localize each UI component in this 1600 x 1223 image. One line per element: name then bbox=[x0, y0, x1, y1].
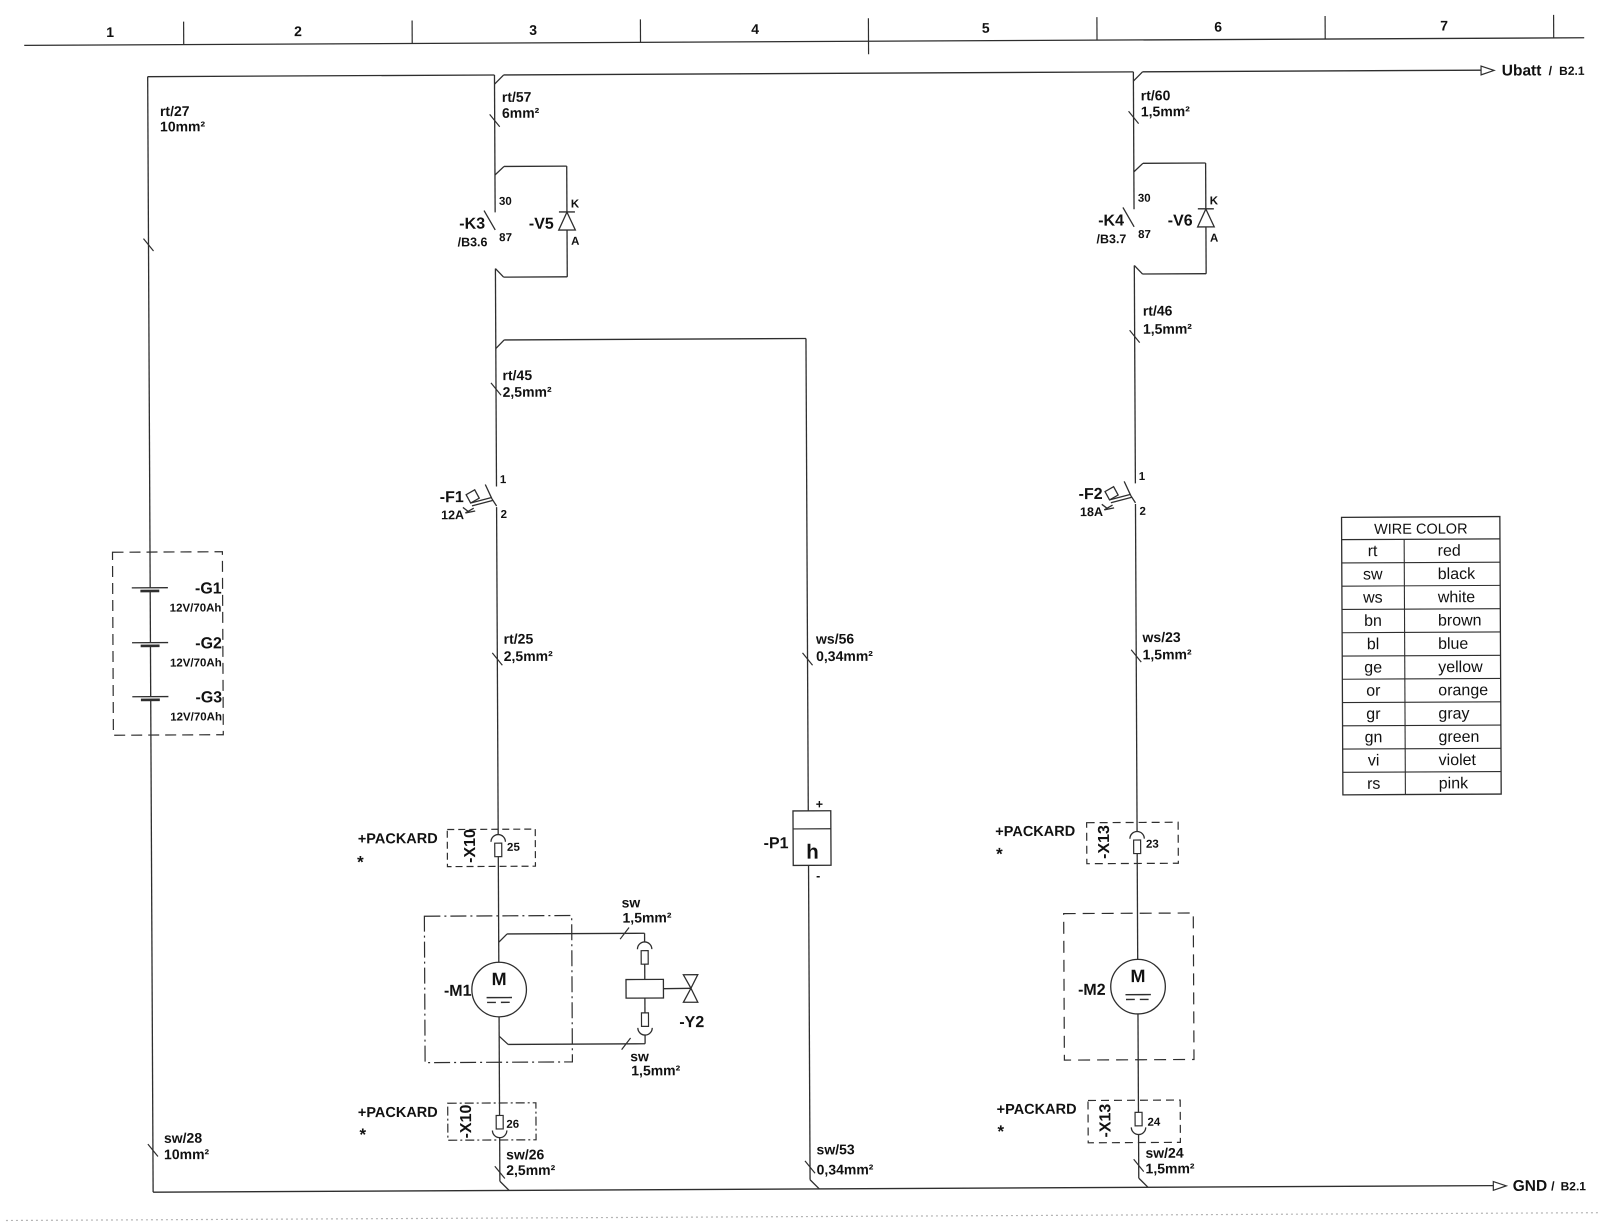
svg-text:1,5mm²: 1,5mm² bbox=[631, 1062, 680, 1078]
wire label sw 1,5mm2 (upper Y2 feed) bbox=[622, 894, 672, 925]
svg-text:orange: orange bbox=[1438, 682, 1488, 699]
wire rt/46 from K4 to F2 bbox=[1134, 265, 1135, 483]
circuit breaker -F1 contact bbox=[485, 484, 496, 506]
cathode label K of -V5 bbox=[571, 198, 580, 210]
motor M1 enclosure box bbox=[424, 916, 572, 1063]
wire sw/26 from X10:26 to GND bbox=[500, 1138, 509, 1191]
motor -M1 (DC motor) bbox=[472, 962, 527, 1017]
junction diagonal at rt/60 bbox=[1133, 72, 1142, 81]
rating 18A of -F2 bbox=[1080, 505, 1103, 519]
release arrow of -F1 bbox=[463, 507, 475, 513]
column ruler line bbox=[24, 38, 1584, 46]
marker slash sw/53 bbox=[805, 1161, 815, 1173]
motor M2 enclosure box bbox=[1064, 913, 1194, 1060]
asterisk (upper left) bbox=[357, 853, 364, 872]
svg-text:sw/53: sw/53 bbox=[816, 1141, 854, 1157]
svg-text:/B3.7: /B3.7 bbox=[1096, 232, 1126, 246]
svg-text:23: 23 bbox=[1146, 839, 1159, 851]
asterisk (lower right) bbox=[997, 1122, 1004, 1141]
svg-text:-V6: -V6 bbox=[1168, 213, 1193, 230]
marker slash rt/57 bbox=[490, 114, 500, 126]
svg-text:violet: violet bbox=[1439, 752, 1477, 769]
svg-text:1: 1 bbox=[500, 474, 507, 486]
svg-text:rt/46: rt/46 bbox=[1143, 302, 1173, 318]
svg-text:*: * bbox=[357, 853, 364, 872]
pin 2 of -F1 bbox=[501, 509, 507, 521]
marker slash rt/46 bbox=[1130, 330, 1140, 342]
connector contact pair (upper Y2) bbox=[637, 942, 652, 964]
svg-text:WIRE COLOR: WIRE COLOR bbox=[1374, 521, 1468, 537]
wire label rt/27 10mm2 bbox=[160, 103, 206, 135]
svg-text:87: 87 bbox=[499, 232, 512, 244]
pin 1 of -F1 bbox=[500, 474, 507, 486]
svg-text:pink: pink bbox=[1439, 775, 1469, 792]
svg-text:12V/70Ah: 12V/70Ah bbox=[170, 711, 222, 723]
wire label rt/45 2,5mm2 bbox=[503, 367, 553, 400]
svg-text:gray: gray bbox=[1438, 706, 1469, 723]
svg-text:+PACKARD: +PACKARD bbox=[358, 1105, 438, 1121]
ruler number 2 bbox=[294, 23, 302, 39]
connector -X13 pin 24 enclosure bbox=[1088, 1100, 1180, 1143]
marker slash ws/56 bbox=[803, 653, 813, 665]
svg-text:Ubatt: Ubatt bbox=[1502, 62, 1542, 79]
wire rt/57 from Ubatt to K3 bbox=[493, 75, 496, 212]
asterisk (lower left) bbox=[359, 1125, 366, 1144]
svg-text:2,5mm²: 2,5mm² bbox=[503, 384, 552, 400]
hour meter -P1 bbox=[793, 811, 831, 866]
location label +PACKARD (lower right) bbox=[997, 1102, 1077, 1118]
svg-text:18A: 18A bbox=[1080, 505, 1103, 519]
svg-text:1: 1 bbox=[1139, 471, 1146, 483]
ruler number 3 bbox=[529, 22, 537, 38]
label -V6 bbox=[1168, 213, 1193, 230]
valve symbol of -Y2 bbox=[683, 975, 698, 1003]
svg-text:12V/70Ah: 12V/70Ah bbox=[170, 602, 222, 614]
svg-text:vi: vi bbox=[1368, 752, 1380, 769]
svg-text:rt: rt bbox=[1368, 543, 1378, 560]
svg-text:black: black bbox=[1438, 566, 1476, 583]
svg-text:*: * bbox=[359, 1125, 366, 1144]
rating 12V/70Ah of -G1 bbox=[170, 602, 222, 614]
ruler number 1 bbox=[106, 24, 114, 40]
svg-text:+: + bbox=[816, 797, 823, 811]
svg-text:h: h bbox=[806, 841, 819, 864]
svg-text:ws: ws bbox=[1362, 590, 1383, 607]
marker slash rt/25 bbox=[492, 653, 502, 665]
svg-text:/B3.6: /B3.6 bbox=[458, 235, 488, 249]
svg-text:6mm²: 6mm² bbox=[502, 105, 540, 121]
svg-text:-X10: -X10 bbox=[458, 1104, 475, 1138]
wire label sw 1,5mm2 (lower Y2 return) bbox=[630, 1048, 681, 1078]
ruler number 4 bbox=[751, 21, 759, 37]
relay contact -K4 (terminals 30/87) bbox=[1123, 207, 1134, 227]
wire color legend table bbox=[1342, 517, 1502, 795]
Ubatt supply rail bbox=[148, 70, 1481, 77]
cathode label K of -V6 bbox=[1210, 195, 1219, 207]
svg-text:24: 24 bbox=[1147, 1117, 1160, 1129]
label -F1 bbox=[440, 489, 464, 506]
svg-text:-: - bbox=[816, 869, 820, 883]
svg-text:bl: bl bbox=[1367, 636, 1380, 653]
wire label sw/24 1,5mm2 bbox=[1145, 1145, 1195, 1177]
svg-text:white: white bbox=[1437, 589, 1476, 606]
svg-text:6: 6 bbox=[1214, 19, 1222, 35]
svg-text:1,5mm²: 1,5mm² bbox=[1141, 103, 1190, 119]
svg-text:+PACKARD: +PACKARD bbox=[997, 1102, 1077, 1118]
svg-text:B2.1: B2.1 bbox=[1559, 64, 1585, 78]
svg-text:-X13: -X13 bbox=[1097, 1104, 1114, 1138]
svg-text:rs: rs bbox=[1367, 776, 1380, 793]
svg-text:3: 3 bbox=[529, 22, 537, 38]
svg-text:2: 2 bbox=[1139, 506, 1145, 518]
ruler tick 6 bbox=[1324, 16, 1326, 39]
svg-text:yellow: yellow bbox=[1438, 659, 1483, 676]
svg-text:sw/24: sw/24 bbox=[1145, 1145, 1183, 1161]
rating 12V/70Ah of -G2 bbox=[170, 657, 222, 669]
svg-text:A: A bbox=[1210, 233, 1218, 245]
svg-text:1,5mm²: 1,5mm² bbox=[1143, 646, 1192, 662]
wire sw/28 from battery to GND bbox=[151, 700, 153, 1192]
svg-text:10mm²: 10mm² bbox=[160, 118, 206, 134]
svg-text:-M2: -M2 bbox=[1078, 982, 1106, 999]
connector contact 24 of -X13 bbox=[1131, 1112, 1146, 1134]
svg-text:sw: sw bbox=[1363, 566, 1383, 583]
label -G3 bbox=[195, 689, 222, 706]
anode label A of -V6 bbox=[1210, 233, 1218, 245]
svg-text:rt/45: rt/45 bbox=[503, 367, 533, 383]
location label +PACKARD (upper right) bbox=[995, 824, 1075, 840]
label -G2 bbox=[195, 635, 222, 652]
svg-text:12A: 12A bbox=[441, 508, 464, 522]
svg-text:1: 1 bbox=[106, 24, 114, 40]
svg-text:-X13: -X13 bbox=[1096, 825, 1113, 859]
relay contact -K3 (terminals 30/87) bbox=[484, 210, 495, 230]
ruler tick 1 bbox=[183, 22, 185, 45]
svg-text:1,5mm²: 1,5mm² bbox=[622, 909, 671, 925]
svg-text:2: 2 bbox=[501, 509, 507, 521]
ruler tick 4 bbox=[867, 18, 869, 54]
marker slash sw/28 bbox=[148, 1144, 158, 1156]
link from coil to valve symbol bbox=[663, 987, 691, 989]
svg-text:-K4: -K4 bbox=[1098, 213, 1124, 230]
svg-text:12V/70Ah: 12V/70Ah bbox=[170, 657, 222, 669]
wire label sw/53 0,34mm2 bbox=[816, 1141, 873, 1177]
wire from connector to Y2 coil bbox=[644, 964, 646, 979]
wire label ws/56 0,34mm2 bbox=[815, 630, 873, 664]
connector -X10 pin 25 enclosure bbox=[447, 829, 535, 867]
svg-text:2: 2 bbox=[294, 23, 302, 39]
pin number 26 bbox=[506, 1119, 519, 1131]
solenoid coil -Y2 bbox=[626, 979, 663, 998]
svg-text:GND: GND bbox=[1513, 1178, 1548, 1195]
battery cell -G2 12V/70Ah bbox=[132, 643, 168, 646]
release arrow of -F2 bbox=[1102, 504, 1114, 510]
label -G1 bbox=[195, 580, 222, 597]
svg-text:/: / bbox=[1549, 64, 1553, 78]
pin 87 of -K3 bbox=[499, 232, 512, 244]
wire rt/60 from Ubatt to K4 bbox=[1132, 72, 1135, 209]
svg-text:ws/23: ws/23 bbox=[1141, 629, 1180, 645]
label -K4 bbox=[1098, 213, 1124, 230]
svg-text:rt/60: rt/60 bbox=[1141, 87, 1171, 103]
polarity - of -P1 bbox=[816, 869, 820, 883]
svg-text:87: 87 bbox=[1138, 229, 1151, 241]
diode -V5 (freewheel diode, cathode up) bbox=[559, 212, 576, 230]
svg-text:ge: ge bbox=[1364, 659, 1382, 676]
location label +PACKARD (upper left) bbox=[358, 831, 438, 847]
svg-text:-G1: -G1 bbox=[195, 580, 222, 597]
pin 30 of -K4 bbox=[1138, 193, 1151, 205]
svg-text:sw/28: sw/28 bbox=[164, 1130, 202, 1146]
wire from X13:23 to motor M2 bbox=[1136, 854, 1139, 960]
thermal release element of -F1 bbox=[466, 490, 493, 506]
svg-text:A: A bbox=[571, 236, 579, 248]
svg-text:-P1: -P1 bbox=[764, 835, 789, 852]
svg-text:-F2: -F2 bbox=[1079, 486, 1103, 503]
wire label rt/60 1,5mm2 bbox=[1141, 87, 1191, 119]
svg-text:+PACKARD: +PACKARD bbox=[995, 824, 1075, 840]
svg-text:blue: blue bbox=[1438, 636, 1468, 653]
Ubatt arrow bbox=[1481, 66, 1494, 75]
pin number 25 bbox=[507, 842, 520, 854]
battery enclosure box bbox=[113, 552, 224, 736]
svg-text:sw: sw bbox=[622, 894, 641, 910]
svg-text:2,5mm²: 2,5mm² bbox=[506, 1162, 555, 1178]
label -Y2 bbox=[679, 1014, 704, 1031]
pin 1 of -F2 bbox=[1139, 471, 1146, 483]
svg-text:K: K bbox=[571, 198, 580, 210]
ruler number 7 bbox=[1440, 17, 1448, 33]
wire from motor M2 down to X13 pin 24 bbox=[1137, 1014, 1139, 1112]
label -M2 bbox=[1078, 982, 1106, 999]
svg-text:30: 30 bbox=[499, 196, 512, 208]
wire: diode branch of -V6 bbox=[1134, 163, 1206, 274]
GND return rail bbox=[153, 1186, 1493, 1193]
location label +PACKARD (lower left) bbox=[358, 1105, 438, 1121]
wire ws/23 from F2 to connector X13 pin 23 bbox=[1135, 504, 1137, 831]
connector label -X10 (upper) bbox=[462, 829, 479, 863]
svg-text:rt/27: rt/27 bbox=[160, 103, 190, 119]
rating 12A of -F1 bbox=[441, 508, 464, 522]
marker slash rt/45 bbox=[491, 383, 501, 395]
svg-text:4: 4 bbox=[751, 21, 759, 37]
svg-text:rt/25: rt/25 bbox=[504, 631, 534, 647]
svg-text:M: M bbox=[1130, 966, 1145, 986]
svg-text:red: red bbox=[1438, 543, 1461, 560]
wire label rt/57 6mm2 bbox=[502, 89, 540, 121]
wire from X10:25 to motor M1 bbox=[497, 857, 500, 963]
svg-text:or: or bbox=[1366, 683, 1381, 700]
svg-text:-Y2: -Y2 bbox=[679, 1014, 704, 1031]
svg-text:gn: gn bbox=[1365, 729, 1383, 746]
svg-text:/: / bbox=[1551, 1179, 1555, 1193]
svg-text:0,34mm²: 0,34mm² bbox=[816, 648, 873, 664]
pin number 23 bbox=[1146, 839, 1159, 851]
svg-text:26: 26 bbox=[506, 1119, 519, 1131]
svg-text:7: 7 bbox=[1440, 17, 1448, 33]
connector -X10 pin 26 enclosure bbox=[448, 1103, 536, 1140]
label -K3 bbox=[459, 216, 485, 233]
svg-text:-F1: -F1 bbox=[440, 489, 464, 506]
svg-text:-G3: -G3 bbox=[195, 689, 222, 706]
svg-text:-K3: -K3 bbox=[459, 216, 485, 233]
svg-text:1,5mm²: 1,5mm² bbox=[1145, 1160, 1194, 1176]
marker slash sw/24 bbox=[1134, 1159, 1144, 1171]
svg-text:30: 30 bbox=[1138, 193, 1151, 205]
ruler tick 3 bbox=[639, 19, 641, 42]
svg-text:10mm²: 10mm² bbox=[164, 1146, 210, 1162]
connector label -X10 (lower) bbox=[458, 1104, 475, 1138]
ruler tick 2 bbox=[411, 20, 413, 43]
wire between G1 and G2 bbox=[149, 591, 151, 643]
branch corner to hour meter wire bbox=[496, 338, 806, 348]
marker slash sw upper bbox=[620, 928, 629, 940]
motor -M2 (DC motor) bbox=[1111, 959, 1166, 1014]
svg-text:rt/57: rt/57 bbox=[502, 89, 532, 105]
svg-text:2,5mm²: 2,5mm² bbox=[504, 648, 553, 664]
label -P1 bbox=[764, 835, 789, 852]
anode label A of -V5 bbox=[571, 236, 579, 248]
wire rt/27 from Ubatt to battery bbox=[148, 77, 150, 588]
svg-text:brown: brown bbox=[1438, 612, 1482, 629]
pin 2 of -F2 bbox=[1139, 506, 1145, 518]
svg-text:sw/26: sw/26 bbox=[506, 1146, 544, 1162]
connector contact 25 of -X10 bbox=[491, 835, 506, 857]
label -M1 bbox=[444, 983, 472, 1000]
wire label sw/26 2,5mm2 bbox=[506, 1146, 556, 1178]
wire rt/25 from F1 to connector X10 pin 25 bbox=[497, 507, 499, 834]
pin 30 of -K3 bbox=[499, 196, 512, 208]
cross-reference /B3.7 of -K4 bbox=[1096, 232, 1126, 246]
net label GND / B2.1 bbox=[1513, 1178, 1587, 1195]
scan artifact dotted line bbox=[6, 1213, 1600, 1221]
wire sw/24 from X13:24 to GND bbox=[1139, 1135, 1148, 1188]
wire between G2 and G3 bbox=[149, 646, 151, 697]
svg-text:5: 5 bbox=[982, 20, 990, 36]
polarity + of -P1 bbox=[816, 797, 823, 811]
connector -X13 pin 23 enclosure bbox=[1087, 822, 1179, 863]
pin number 24 bbox=[1147, 1117, 1160, 1129]
circuit breaker -F2 contact bbox=[1124, 481, 1135, 503]
diode -V6 (freewheel diode, cathode up) bbox=[1198, 209, 1215, 227]
svg-text:ws/56: ws/56 bbox=[815, 631, 854, 647]
thermal release element of -F2 bbox=[1105, 487, 1132, 503]
svg-text:+PACKARD: +PACKARD bbox=[358, 831, 438, 847]
wire label rt/25 2,5mm2 bbox=[504, 631, 554, 665]
svg-text:*: * bbox=[996, 845, 1003, 864]
svg-text:-X10: -X10 bbox=[462, 829, 479, 863]
wire label sw/28 10mm2 bbox=[164, 1130, 210, 1163]
connector label -X13 (upper) bbox=[1096, 825, 1113, 859]
marker slash sw lower bbox=[622, 1038, 631, 1050]
cross-reference /B3.6 of -K3 bbox=[458, 235, 488, 249]
battery cell -G1 12V/70Ah bbox=[132, 588, 168, 591]
label -V5 bbox=[529, 216, 554, 233]
connector contact 26 of -X10 bbox=[492, 1115, 507, 1137]
svg-text:M: M bbox=[492, 969, 507, 989]
branch wire to valve Y2 (upper) bbox=[499, 933, 645, 943]
junction diagonal at rt/57 bbox=[494, 75, 503, 84]
GND arrow bbox=[1493, 1181, 1506, 1190]
marker slash rt/27 bbox=[143, 239, 153, 251]
pin 87 of -K4 bbox=[1138, 229, 1151, 241]
svg-text:25: 25 bbox=[507, 842, 520, 854]
svg-text:-G2: -G2 bbox=[195, 635, 222, 652]
connector label -X13 (lower) bbox=[1097, 1104, 1114, 1138]
marker slash rt/60 bbox=[1129, 111, 1139, 123]
connector contact 23 of -X13 bbox=[1130, 831, 1145, 853]
marker slash sw/26 bbox=[495, 1166, 505, 1178]
svg-text:-V5: -V5 bbox=[529, 216, 554, 233]
svg-text:-M1: -M1 bbox=[444, 983, 472, 1000]
svg-text:*: * bbox=[997, 1122, 1004, 1141]
svg-text:gr: gr bbox=[1366, 706, 1381, 723]
wire label rt/46 1,5mm2 bbox=[1143, 302, 1193, 336]
svg-text:B2.1: B2.1 bbox=[1561, 1179, 1587, 1193]
ruler number 5 bbox=[982, 20, 990, 36]
label -F2 bbox=[1079, 486, 1103, 503]
svg-text:green: green bbox=[1438, 729, 1479, 746]
marker slash ws/23 bbox=[1131, 650, 1141, 662]
asterisk (upper right) bbox=[996, 845, 1003, 864]
ruler tick 5 bbox=[1096, 17, 1098, 40]
connector contact pair (lower Y2) bbox=[638, 1013, 653, 1035]
svg-text:0,34mm²: 0,34mm² bbox=[817, 1161, 874, 1177]
wire ws/56 from branch to hour meter bbox=[806, 338, 808, 810]
wire from Y2 coil to lower connector bbox=[644, 998, 646, 1013]
wire: diode branch of -V5 bbox=[495, 166, 567, 277]
branch wire back from Y2 (lower) bbox=[499, 1035, 645, 1044]
svg-text:K: K bbox=[1210, 195, 1219, 207]
ruler number 6 bbox=[1214, 19, 1222, 35]
ruler tick 7 bbox=[1553, 15, 1555, 38]
svg-text:1,5mm²: 1,5mm² bbox=[1143, 321, 1192, 337]
battery cell -G3 12V/70Ah bbox=[132, 697, 168, 700]
wire rt/45 from K3 to F1 bbox=[495, 269, 496, 487]
wire label ws/23 1,5mm2 bbox=[1141, 629, 1192, 663]
wire sw/53 from hour meter to GND bbox=[809, 865, 820, 1189]
rating 12V/70Ah of -G3 bbox=[170, 711, 222, 723]
wire from motor M1 down to X10 pin 26 bbox=[498, 1017, 500, 1116]
svg-text:bn: bn bbox=[1364, 613, 1382, 630]
net label Ubatt / B2.1 bbox=[1502, 62, 1585, 79]
